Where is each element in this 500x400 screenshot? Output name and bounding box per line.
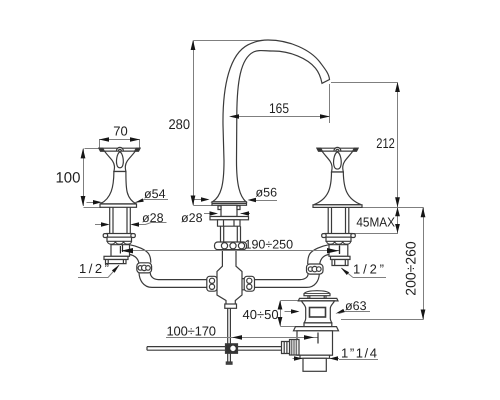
spout tube <box>223 40 330 161</box>
70 arrows <box>99 137 109 142</box>
wire: o28 center leader <box>204 213 250 215</box>
wire: 70 dim line <box>99 140 140 149</box>
left handle bar <box>99 148 140 151</box>
half inch right arrow <box>341 268 349 275</box>
drain top flange <box>298 298 338 301</box>
svg-text:1/2”: 1/2” <box>353 262 384 277</box>
hose coupling band <box>215 242 247 250</box>
right valve stub <box>332 260 348 266</box>
40/50 arrows <box>278 301 283 310</box>
1 1/4 arrows <box>294 356 303 361</box>
wire: 1 1/4 leader <box>293 359 379 360</box>
left valve stub flange <box>104 256 128 259</box>
cross arms <box>207 279 254 290</box>
right handle bell <box>314 172 361 205</box>
drain tailpipe <box>303 358 326 371</box>
left elbow pipe <box>130 245 151 263</box>
wire: 100/170 dim line <box>166 337 318 339</box>
spout base bell <box>213 161 247 202</box>
svg-text:200÷260: 200÷260 <box>403 241 419 296</box>
drain tail collar <box>300 355 330 358</box>
wire: 200/260 dim line <box>341 208 424 320</box>
svg-text:ø28: ø28 <box>142 211 164 225</box>
left hose <box>139 273 207 288</box>
wire: o28 left leader <box>95 223 167 225</box>
svg-text:70: 70 <box>113 124 127 139</box>
drain plug cap <box>304 291 330 296</box>
drain collar <box>304 323 332 327</box>
spout shaft <box>221 226 241 242</box>
45MAX arrows <box>395 207 400 216</box>
o56 arrows <box>201 197 210 202</box>
right valve washer <box>325 234 352 238</box>
left valve scallop nut <box>107 237 132 241</box>
svg-text:ø56: ø56 <box>256 186 278 200</box>
165 arrows <box>229 114 239 119</box>
spout bell rim <box>212 202 247 206</box>
wire: 212 dim line <box>331 83 398 208</box>
right handle teardrop <box>334 152 342 169</box>
node drain center tick <box>317 333 319 344</box>
right valve stub flange <box>331 256 351 259</box>
o28 left arrows <box>101 222 110 227</box>
spout flange disc <box>210 217 249 220</box>
svg-text:45MAX: 45MAX <box>356 214 395 229</box>
node right valve center tick <box>339 246 341 254</box>
100 arrows <box>81 148 86 158</box>
280 arrows <box>191 40 196 50</box>
right handle funnel <box>322 151 353 172</box>
right handle screw <box>334 147 341 154</box>
rod end cap <box>226 362 232 364</box>
190/250 arrows <box>121 248 133 253</box>
svg-text:212: 212 <box>376 135 395 151</box>
cross left nut <box>207 276 217 291</box>
spout neck tabs <box>218 206 240 210</box>
svg-text:ø54: ø54 <box>144 187 166 201</box>
svg-text:1/2”: 1/2” <box>79 261 109 276</box>
wire: 40/50 bracket <box>281 301 301 327</box>
drain rod coupling <box>282 342 290 354</box>
right hose <box>255 274 320 287</box>
left handle funnel <box>105 151 136 171</box>
right handle bell rim <box>313 205 362 208</box>
spout nut <box>218 220 241 226</box>
left hose nut <box>137 263 152 273</box>
drain window <box>310 308 326 318</box>
left valve body <box>111 245 130 257</box>
left valve stub <box>106 260 127 264</box>
lever rod <box>147 347 282 351</box>
wire: 165 dim line <box>229 84 330 123</box>
lift rod <box>228 308 231 362</box>
wire: deck line right <box>362 207 424 209</box>
right elbow pipe <box>308 245 329 264</box>
right handle bar tips <box>317 148 358 151</box>
o54 arrows <box>93 200 102 205</box>
wire: o54 leader <box>87 200 169 203</box>
wire: 280 dim line <box>194 41 263 206</box>
right hose nut <box>307 264 324 274</box>
right handle bar <box>317 148 358 151</box>
svg-text:165: 165 <box>269 100 289 116</box>
svg-text:190÷250: 190÷250 <box>245 238 294 252</box>
o28 center arrows <box>210 211 219 216</box>
right valve shank <box>328 207 349 233</box>
wire: o56 leader <box>193 200 277 201</box>
wire: half inch right leader <box>342 268 387 278</box>
right valve scallop nut <box>326 237 351 241</box>
node left valve center tick <box>119 246 121 254</box>
spout neck <box>221 205 237 216</box>
svg-text:280: 280 <box>169 116 191 132</box>
svg-text:40÷50: 40÷50 <box>243 307 279 322</box>
drain lower body <box>297 331 333 355</box>
left handle bell rim <box>100 204 137 207</box>
rod collar <box>225 304 237 308</box>
svg-text:100: 100 <box>55 170 80 187</box>
right valve body <box>329 245 348 257</box>
clevis block <box>226 344 238 354</box>
drain gland knurl <box>290 340 300 356</box>
left valve washer <box>107 234 133 238</box>
left handle bar tips <box>99 148 140 151</box>
left valve shaft <box>110 207 131 233</box>
200/260 arrows <box>421 207 426 217</box>
100/170 arrows <box>232 335 242 340</box>
left handle bell <box>100 172 136 204</box>
drain spool body <box>302 301 335 323</box>
drain plug stems <box>308 296 326 299</box>
body column <box>217 250 242 304</box>
cross right nut <box>244 276 254 291</box>
drain deck flange <box>294 327 339 331</box>
212 arrows <box>395 82 400 92</box>
wire: half inch left leader <box>78 265 119 277</box>
svg-text:1”1/4: 1”1/4 <box>341 346 377 361</box>
o63 arrow <box>336 309 345 314</box>
wire: 45MAX bracket <box>354 208 398 234</box>
left handle teardrop <box>116 152 123 168</box>
wire: 190/250 dim line <box>123 250 339 252</box>
wire: o63 leader <box>339 312 371 314</box>
svg-text:ø63: ø63 <box>345 299 367 313</box>
svg-text:100÷170: 100÷170 <box>167 324 217 339</box>
left handle screw <box>117 147 124 154</box>
half inch left arrow <box>112 265 120 273</box>
wire: 100 dim line <box>84 149 102 208</box>
node 190/250 end ticks <box>123 245 340 255</box>
svg-text:ø28: ø28 <box>181 211 203 225</box>
